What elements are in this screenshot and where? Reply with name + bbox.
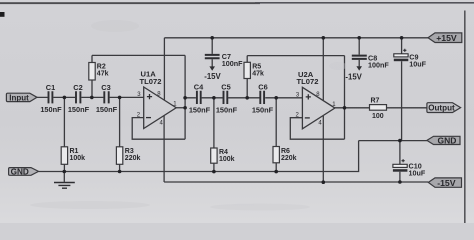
scan artifact: right column separator line [464,11,466,224]
connector: GND right terminal [427,136,460,146]
svg-text:150nF: 150nF [96,105,118,114]
connector: Input terminal [6,93,37,102]
scan artifact: left edge black blob [0,12,5,17]
wire: input chain (Input to U1A pin3) [37,96,144,98]
svg-text:150nF: 150nF [216,106,238,115]
svg-text:-15V: -15V [204,72,221,81]
capacitor C2 [68,83,90,114]
capacitor C9 (electrolytic) [394,38,427,141]
svg-text:GND: GND [11,167,29,176]
wire: +15V rail [164,37,428,39]
svg-text:10uF: 10uF [409,169,426,178]
resistor R7 [370,98,387,121]
svg-text:150nF: 150nF [68,105,90,114]
svg-text:C1: C1 [46,83,55,92]
wire: vertical node line at x=185 (R2 feedback / output node) [184,55,186,139]
wire: U2A feedback loop (pin2 around bottom) [290,118,344,140]
ground symbol [54,172,75,189]
svg-text:100k: 100k [219,156,235,163]
svg-text:220k: 220k [125,155,141,162]
wire: U2A pin4 to -15V rail [322,116,324,182]
capacitor C3 [96,83,118,114]
svg-text:150nF: 150nF [40,105,62,114]
node: +15V rail dots [210,36,403,40]
svg-text:R7: R7 [371,98,380,105]
svg-text:R3: R3 [125,148,134,155]
svg-text:4: 4 [160,120,164,126]
svg-text:Input: Input [9,93,29,102]
node: -15V rail dots [322,180,402,184]
wire: GND rail left section [39,141,359,172]
resistor R2 [89,55,109,97]
svg-text:Output: Output [428,104,455,113]
svg-text:C6: C6 [258,83,267,92]
wire: second chain (node to U2A pin3) [185,97,302,99]
svg-text:150nF: 150nF [252,106,274,115]
svg-text:TL072: TL072 [297,77,319,86]
svg-text:C2: C2 [73,83,82,92]
connector: Output terminal [427,103,461,113]
svg-text:100nF: 100nF [368,61,389,70]
svg-text:47k: 47k [97,71,109,78]
capacitor C7 [204,38,243,81]
capacitor C8 [345,38,389,82]
svg-text:C5: C5 [221,83,230,92]
capacitor C4 [189,83,211,115]
svg-text:C4: C4 [194,83,204,92]
connector: +15V terminal [428,33,462,43]
op-amp U2A [296,70,337,129]
node: U2A output node dot [343,106,347,110]
svg-text:150nF: 150nF [189,106,211,115]
svg-text:100: 100 [372,113,384,120]
wire: GND right wire to connector [359,140,427,142]
svg-text:4: 4 [318,121,322,127]
svg-text:8: 8 [157,92,161,98]
svg-text:R4: R4 [219,149,228,156]
resistor R6 [273,98,297,172]
capacitor C5 [216,83,238,115]
svg-text:R2: R2 [97,64,106,71]
resistor R3 [116,97,140,171]
wire: -15V rail [164,181,428,183]
svg-text:100nF: 100nF [222,59,243,68]
wire: U1A pin8 to +15V rail [163,38,165,100]
capacitor C6 [252,83,274,115]
wire: U2A pin8 to +15V rail [322,38,324,101]
node: junction dots second chain [212,96,278,100]
connector: GND left terminal [9,167,39,176]
wire: U1A feedback loop (pin2 around bottom) [132,118,185,140]
svg-text:47k: 47k [252,71,264,78]
op-amp U1A [137,70,178,129]
resistor R1 [61,97,85,171]
wire: U2A output to R7 to Output [335,107,428,109]
node: U1A output node dots [183,96,187,110]
wire: U1A output to node [176,107,185,109]
svg-text:+15V: +15V [436,33,457,43]
node: GND rail dots [63,170,279,174]
svg-text:R5: R5 [252,64,261,71]
svg-text:220k: 220k [281,155,297,162]
capacitor C1 [40,83,62,114]
svg-text:GND: GND [438,136,457,146]
node: GND right wire dot at C9/C10 [398,139,402,143]
svg-text:8: 8 [316,92,320,98]
connector: -15V terminal [428,178,461,188]
resistor R5 [244,56,264,98]
svg-text:R1: R1 [70,148,79,155]
svg-text:1: 1 [173,102,177,108]
svg-text:-15V: -15V [345,72,362,81]
wire: vertical node line at x=344.5 (U2A output node) [344,56,346,140]
svg-text:100k: 100k [70,155,86,162]
capacitor C10 (electrolytic) [393,141,426,182]
wire: U1A pin4 to -15V rail [163,116,165,182]
scan artifact: faint smudges [30,20,347,211]
svg-text:1: 1 [332,102,336,108]
svg-text:-15V: -15V [437,178,456,188]
wire: R2 top feedback wire [92,54,185,56]
resistor R4 [211,98,235,172]
wire: R5 top feedback wire [247,55,344,57]
svg-text:10uF: 10uF [409,60,426,69]
scan artifact: top page line [0,2,474,4]
node: junction dots input chain [63,96,122,100]
svg-text:R6: R6 [281,148,290,155]
svg-text:TL072: TL072 [140,77,162,86]
svg-text:C3: C3 [101,83,110,92]
